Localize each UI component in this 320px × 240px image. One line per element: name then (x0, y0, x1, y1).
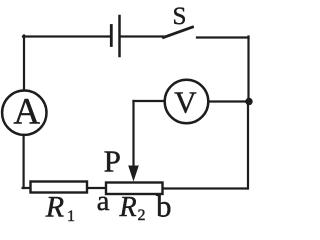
svg-text:R: R (119, 192, 137, 223)
wire bottom-left corner to R1 (23, 187, 31, 189)
wire right vertical lower (247, 102, 249, 189)
wire wiper vertical (132, 101, 134, 170)
svg-text:2: 2 (138, 207, 146, 224)
svg-text:b: b (156, 189, 172, 224)
battery B1 short plate (negative) (110, 26, 113, 46)
svg-text:1: 1 (67, 208, 75, 225)
ammeter A1 circle (2, 91, 46, 135)
rheostat R2 body (106, 183, 163, 195)
wiper arrow P (slider contact) (128, 166, 139, 182)
wire bottom right (R2 b-terminal to right corner) (163, 187, 248, 189)
svg-text:R: R (45, 191, 64, 224)
wire left vertical (battery+ to ammeter) (23, 36, 25, 91)
wire battery to switch (121, 35, 164, 37)
wire top-left horizontal (node from ammeter to battery) (23, 35, 110, 37)
wire switch to top-right corner (197, 36, 249, 38)
wire right vertical (247, 37, 249, 102)
switch S blade (164, 27, 193, 38)
wire voltmeter to junction (209, 100, 247, 102)
junction dot (node at voltmeter tap) (245, 98, 252, 105)
svg-text:a: a (97, 185, 110, 217)
svg-text:A: A (13, 92, 40, 133)
resistor R1 body (31, 182, 88, 193)
svg-text:P: P (104, 144, 121, 179)
battery B1 tall plate (positive) (118, 16, 121, 56)
wire R1 to R2 (node a) (87, 187, 106, 189)
voltmeter V1 circle (165, 80, 209, 124)
wire voltmeter left to corner above wiper (134, 100, 165, 102)
wire ammeter bottom vertical (23, 135, 25, 188)
svg-text:S: S (173, 3, 187, 30)
svg-text:V: V (174, 85, 197, 120)
